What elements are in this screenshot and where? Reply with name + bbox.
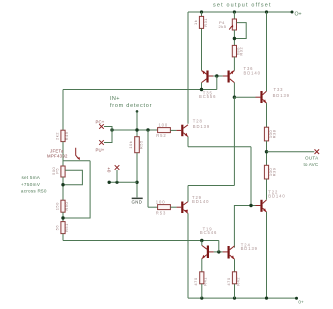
junction on rail at R31 column xyxy=(200,10,203,13)
svg-text:100: 100 xyxy=(158,123,168,128)
junction: X flags node xyxy=(110,128,113,131)
svg-text:BD139: BD139 xyxy=(273,93,290,98)
junction: bootstrap tie below R50 xyxy=(61,216,64,219)
wire: T36 collector down xyxy=(233,83,235,98)
junction: T19 resistor at rail xyxy=(200,297,203,300)
wire: rail left end down to T28 collector xyxy=(187,12,189,124)
wire: T28 emitter down xyxy=(187,137,189,147)
junction: T19 collector on rail xyxy=(200,239,203,242)
transistor T36 BD140 (PNP) xyxy=(223,70,235,82)
svg-text:PU+: PU+ xyxy=(96,147,105,152)
wire: R50 to R51 xyxy=(62,212,64,221)
svg-text:PC+: PC+ xyxy=(96,120,105,125)
svg-text:GND: GND xyxy=(132,199,143,204)
svg-text:1k: 1k xyxy=(193,20,198,25)
transistor T19 BC546 (mirrored NPN) xyxy=(202,245,214,259)
net flag X: PC+ xyxy=(99,124,104,129)
wire: P5 bottom lead xyxy=(62,177,64,200)
svg-text:P5: P5 xyxy=(54,168,59,174)
resistor R51 body xyxy=(61,222,65,234)
wire: node down to T29 collector rung xyxy=(233,97,235,185)
transistor T33 BD139 (NPN) xyxy=(256,91,267,103)
net flag X: PU+ xyxy=(99,140,104,145)
resistor R50 body xyxy=(61,200,65,212)
svg-text:R39: R39 xyxy=(272,167,277,176)
wire: driver output rung to T22 base column xyxy=(188,146,251,148)
junction: mirror base node xyxy=(217,250,220,253)
net flag X: 0+ sense xyxy=(115,165,120,170)
resistor R38 body xyxy=(264,127,268,141)
transistor T29 BD140 (PNP driver) xyxy=(176,202,188,214)
svg-text:BD140: BD140 xyxy=(192,199,209,204)
wire: R51 down to tail rail corner xyxy=(62,234,64,241)
svg-text:BD140: BD140 xyxy=(268,194,285,199)
junction: detector drop / R55 xyxy=(135,128,138,131)
resistor R49 body xyxy=(61,130,65,141)
wire: T19 collector pin xyxy=(201,241,203,246)
resistor R53 body xyxy=(158,205,171,210)
svg-text:470: 470 xyxy=(193,277,198,285)
net flag X: OUTA xyxy=(315,149,320,154)
wire: mirror input node horizontal from JFET drain xyxy=(63,89,217,91)
svg-text:R38: R38 xyxy=(272,129,277,138)
transistor T35 BC556 (mirrored PNP) xyxy=(202,70,214,82)
wire: GND spur horizontal xyxy=(109,181,137,183)
svg-text:OUTA: OUTA xyxy=(305,156,319,161)
junction: R53 branch xyxy=(146,128,149,131)
svg-text:R41: R41 xyxy=(203,277,208,286)
svg-text:R31: R31 xyxy=(203,18,208,27)
wire: long tail-current rail from R51 xyxy=(63,240,219,242)
svg-text:+750mV: +750mV xyxy=(21,182,41,187)
wire: input node horizontal xyxy=(112,129,158,131)
svg-text:BD140: BD140 xyxy=(244,71,261,76)
svg-text:R51: R51 xyxy=(64,223,69,232)
wire: T35-T36 base tie xyxy=(213,75,222,77)
svg-text:T28: T28 xyxy=(193,119,203,124)
wire: PC+ stub xyxy=(104,127,112,131)
wire: R31 top lead xyxy=(201,12,203,16)
wire: left column down from mirror node xyxy=(62,90,64,131)
wire: P5 wiper loop xyxy=(63,170,82,184)
junction: base tie to mirror node xyxy=(215,74,218,77)
svg-text:MPF4392: MPF4392 xyxy=(47,154,68,159)
junction: P4 wiper ties bottom xyxy=(233,37,236,40)
wire: R49 to JFET source follower body xyxy=(62,142,64,166)
wire: T22 base node left and down to T24 collector xyxy=(234,206,251,248)
svg-text:56: 56 xyxy=(54,225,59,231)
wire: R53 branch drop xyxy=(147,130,149,207)
junction: T36 collector / T33 base node xyxy=(233,96,236,99)
junction on rail at T33 collector xyxy=(265,10,268,13)
junction: T22 base node xyxy=(249,204,252,207)
resistor R32 body xyxy=(232,45,236,57)
wire: detector input drop xyxy=(136,111,138,136)
svg-text:across R50: across R50 xyxy=(21,188,47,193)
node: rail end dot at O+ xyxy=(291,11,294,14)
trimmer P4 wiper arrow xyxy=(229,26,232,29)
transistor T28 BD139 (NPN driver) xyxy=(176,125,188,137)
svg-text:R53: R53 xyxy=(156,211,166,216)
svg-text:BC546: BC546 xyxy=(200,230,217,235)
wire: gate bootstrap loop down to below R50 xyxy=(63,161,90,218)
wire: base tie down to mirror input node xyxy=(216,76,218,90)
svg-text:set output offset: set output offset xyxy=(213,3,272,9)
wire: base node riser xyxy=(218,241,220,252)
svg-text:O+: O+ xyxy=(295,11,302,17)
wire: T29 emitter down to 0+ rail corner xyxy=(187,213,189,298)
resistor R31 body xyxy=(199,16,203,28)
wire: T24 emitter to R42 xyxy=(234,259,236,272)
svg-text:470: 470 xyxy=(226,277,231,285)
wire: R55 down to GND xyxy=(136,153,138,198)
svg-text:0+: 0+ xyxy=(107,167,112,173)
wire: gate node horizontal xyxy=(63,160,90,162)
svg-text:BD139: BD139 xyxy=(241,246,258,251)
svg-text:2k5: 2k5 xyxy=(219,24,227,29)
svg-text:R32: R32 xyxy=(239,47,244,56)
svg-text:to AVC: to AVC xyxy=(304,162,319,167)
svg-text:R52: R52 xyxy=(156,133,166,138)
junction: OUTA node xyxy=(265,150,268,153)
wire: T22 base node to transistor xyxy=(251,205,256,207)
wire: PU+ stub xyxy=(104,130,112,143)
transistor T24 BD139 xyxy=(223,246,235,260)
trimmer P4 body xyxy=(232,19,236,30)
transistor T22 BD140 xyxy=(256,200,267,212)
wire: P4 bottom lead xyxy=(233,30,235,45)
wire: trimmer P4 top lead xyxy=(233,12,235,19)
junction: T24 resistor at rail xyxy=(233,297,236,300)
wire: T29 collector pin xyxy=(187,186,189,202)
junction on rail at P4 column xyxy=(233,10,236,13)
resistor R55 body xyxy=(135,137,140,153)
svg-text:R42: R42 xyxy=(235,277,240,286)
resistor R42 body xyxy=(232,272,236,284)
JFET gate arrow xyxy=(76,148,79,159)
wire: down to T22 base xyxy=(250,147,252,206)
wire: R31 bottom to T35 emitter xyxy=(201,28,203,70)
svg-text:BC556: BC556 xyxy=(199,94,216,99)
svg-text:T33: T33 xyxy=(274,87,284,92)
wire: R32 bottom to T36 emitter xyxy=(233,57,235,71)
wire: P4 wiper loop to bottom lead xyxy=(234,23,246,39)
svg-text:0+: 0+ xyxy=(298,300,304,305)
node: spur end dot xyxy=(108,181,111,184)
resistor R39 body xyxy=(264,165,268,179)
wire: top supply rail O+ xyxy=(188,11,292,13)
junction: X3 stub xyxy=(115,181,118,184)
wire: R53 left lead xyxy=(148,206,158,208)
node: bottom rail end dot xyxy=(295,297,298,300)
svg-text:set 5mA: set 5mA xyxy=(22,175,41,180)
resistor R41 body xyxy=(200,272,204,284)
svg-text:BD139: BD139 xyxy=(193,124,210,129)
svg-text:2k2: 2k2 xyxy=(54,132,59,140)
wire: mirror base tie T19-T24 xyxy=(214,251,223,253)
svg-text:JFETa: JFETa xyxy=(50,149,64,154)
wire: bottom 0+ rail xyxy=(188,297,297,299)
wire: R42 to rail xyxy=(234,284,236,298)
node: flag origin dot xyxy=(136,110,139,113)
svg-text:10k: 10k xyxy=(128,141,133,149)
ground symbol GND xyxy=(132,198,143,200)
svg-text:150: 150 xyxy=(54,202,59,210)
wire: R52 to T28 base xyxy=(170,129,176,131)
wire: OUTA node to flag xyxy=(267,151,315,153)
wire: R53 to T29 base xyxy=(170,206,176,208)
junction: T22 emitter at rail xyxy=(265,297,268,300)
svg-text:R50: R50 xyxy=(64,202,69,211)
resistor R52 body xyxy=(158,128,171,133)
trimmer P5 body xyxy=(61,166,65,177)
wire: T33 emitter down to R38 xyxy=(266,103,268,127)
junction: wiper tie xyxy=(61,183,64,186)
wire: T22 emitter down to 0+ rail xyxy=(266,212,268,298)
svg-text:100: 100 xyxy=(156,199,166,204)
junction: T35 collector at node xyxy=(200,88,203,91)
wire: T35 collector to node xyxy=(201,83,203,90)
wire: R41 to rail xyxy=(201,284,203,298)
wire: node to T33 base xyxy=(234,96,255,98)
wire: X3 stub down xyxy=(116,170,118,182)
wire: T33 collector to rail xyxy=(266,12,268,91)
svg-text:R55: R55 xyxy=(138,140,143,149)
svg-text:IN+: IN+ xyxy=(110,96,120,102)
wire: T19 emitter to R41 xyxy=(201,259,203,272)
svg-text:from detector: from detector xyxy=(110,103,152,109)
junction: GND spur node xyxy=(135,181,138,184)
wire: R38 to OUTA node xyxy=(266,141,268,165)
wire: R39 down to T22 collector xyxy=(266,179,268,200)
svg-text:R49: R49 xyxy=(64,131,69,140)
wire: T29 collector horizontal rung xyxy=(188,185,234,187)
